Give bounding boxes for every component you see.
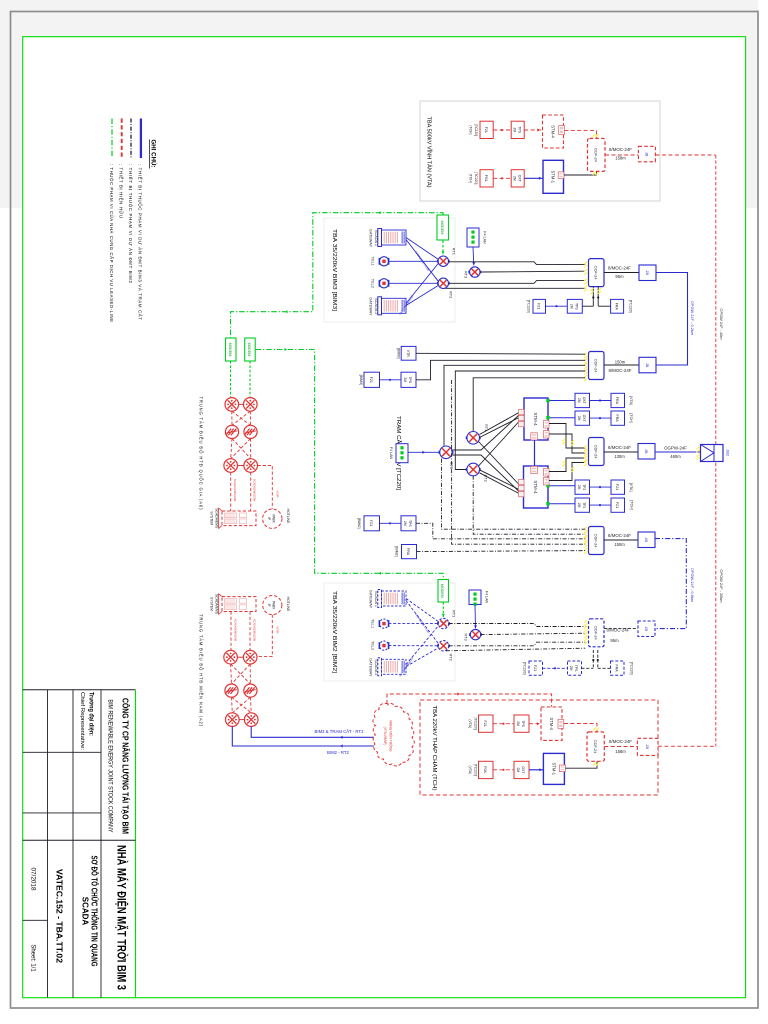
- svg-text:SCADA(EMS)G/W: SCADA(EMS)G/W: [252, 619, 256, 642]
- svg-text:TEL2: TEL2: [371, 279, 375, 288]
- svg-text:BIM RENEWABLE ENERGY JOINT STO: BIM RENEWABLE ENERGY JOINT STOCK COMPANY: [107, 700, 114, 833]
- box F2L (VTA): [480, 121, 493, 138]
- svg-text:(VTA): (VTA): [468, 765, 472, 774]
- svg-text:FRA: FRA: [615, 415, 619, 423]
- wire FRAb dashed to ODF4: [417, 551, 586, 552]
- wire RT3 BIM3 to ODF: [480, 270, 585, 273]
- box F21 (BIM3 feed): [364, 372, 380, 387]
- wire TPS2M BIM3feed to ODF2: [416, 360, 585, 380]
- wire STM4 TCH to ODF: [564, 724, 597, 732]
- svg-text:2M: 2M: [403, 377, 407, 382]
- svg-text:TEL1: TEL1: [371, 619, 375, 628]
- wire ODF VTA - JB VTA: [605, 154, 638, 156]
- label F4 LAN BIM2: [485, 591, 489, 604]
- svg-text:TPS: TPS: [408, 520, 412, 527]
- label 10/100BASE-T LAN upper: [414, 250, 430, 271]
- label VOIP A0: [275, 490, 279, 497]
- svg-text:TPS: TPS: [408, 376, 412, 383]
- wire ODF TCH - JB TCH: [604, 746, 637, 748]
- svg-text:STM-4: STM-4: [549, 717, 554, 730]
- label [BIM3] F21: [359, 375, 363, 385]
- svg-text:[VTA]: [VTA]: [629, 396, 633, 405]
- wire RT2-STM2 fan a: [480, 470, 520, 490]
- label BIM3 TRAM CAT - RT2: [315, 729, 365, 734]
- label SCADA/EMS SYSTEM A2: [209, 594, 218, 615]
- svg-text:: THIẾT BỊ HIỆN HỮU: : THIẾT BỊ HIỆN HỮU: [119, 164, 124, 218]
- box OXT-2M (VTA): [511, 170, 524, 187]
- svg-text:2M: 2M: [569, 666, 573, 671]
- box TF3-2M b: [575, 498, 590, 512]
- router RT2 (BIM3): [437, 278, 450, 288]
- title: drawing name: [81, 856, 100, 967]
- svg-text:RT1: RT1: [452, 248, 457, 255]
- label RT3 BIM2: [464, 633, 469, 640]
- legend text BIM2: [128, 164, 133, 284]
- telephone TEL2 (BIM3): [379, 279, 388, 288]
- svg-text:[TC220]: [TC220]: [474, 124, 478, 136]
- svg-text:2M: 2M: [577, 416, 581, 421]
- wire STM4 VTA to ODF: [564, 131, 596, 139]
- svg-text:GATEWAY: GATEWAY: [369, 590, 373, 609]
- label [TC220] chain1 right: [629, 300, 633, 313]
- station box TBA 500kV Vinh Tan (VTA): [420, 101, 660, 201]
- svg-text:F21: F21: [537, 303, 541, 309]
- wire JB3 to JB2 splice (OGPW): [655, 451, 701, 453]
- junction box JB4: [638, 532, 655, 548]
- svg-text:F21: F21: [615, 484, 619, 490]
- F4 LAN box (TC220): [396, 444, 408, 463]
- hotline PABX IP A2: [263, 596, 282, 615]
- splice ticks VTA ODF top: [593, 134, 599, 137]
- router RT1 (BIM2): [437, 618, 450, 628]
- svg-text:F4 LAN: F4 LAN: [483, 231, 487, 244]
- svg-text:Sheet: 1/1: Sheet: 1/1: [30, 944, 36, 972]
- label cable 8/MOC-24F 95m (BIM2): [607, 628, 630, 643]
- label [TC220] (TCH) VTA chain2: [469, 172, 479, 184]
- multiplexer STM-4 no.1 (TC220): [519, 398, 550, 440]
- svg-text:JB: JB: [645, 271, 650, 276]
- legend black dash-dot line sample: [130, 119, 132, 159]
- svg-text:95m: 95m: [610, 638, 619, 643]
- svg-text:VOIP: VOIP: [275, 490, 279, 497]
- wire STM1 card2 to ODF3: [549, 434, 585, 453]
- ODF-24 (VTA): [588, 138, 606, 171]
- svg-text:JB: JB: [644, 449, 649, 454]
- router RT2 (BIM2): [437, 641, 450, 651]
- wire RT1 BIM3 to ODF: [449, 262, 586, 265]
- svg-text:JB: JB: [644, 152, 649, 157]
- SCADA/EMS system A2: [219, 594, 257, 615]
- A0 gw wires down: [231, 472, 251, 511]
- wire modem 2 down to A0 router: [249, 361, 251, 397]
- wire F21-TPS2M: [546, 305, 568, 307]
- label OPGW 24F - 0.2km: [690, 301, 695, 335]
- svg-text:JB: JB: [644, 538, 649, 543]
- wire GW1-RT2 BIM3: [406, 240, 438, 282]
- wire VOIP A2: [258, 615, 273, 657]
- svg-text:SCADA/EMS: SCADA/EMS: [214, 508, 218, 529]
- splice ticks VTA ODF bottom: [593, 172, 599, 175]
- svg-text:[VTA]: [VTA]: [629, 483, 633, 492]
- svg-text:RT2: RT2: [449, 291, 454, 298]
- wire VTR to ODF2: [416, 352, 585, 355]
- label SCADA/EMS SYSTEM A0: [209, 508, 218, 529]
- svg-text:SƠ ĐỒ TỔ CHỨC THÔNG TIN QUANG: SƠ ĐỒ TỔ CHỨC THÔNG TIN QUANG: [90, 856, 100, 967]
- splice ticks ODF4 entries: [584, 527, 587, 554]
- junction box JB (TCH): [637, 738, 658, 755]
- label [BIM3] VTR: [397, 348, 401, 358]
- wire STM1-OXT2M b: [550, 417, 575, 419]
- router RT3 (BIM3): [468, 267, 481, 277]
- wire F21b-TPS2Mb: [380, 522, 402, 524]
- svg-text:8/MOC-24F: 8/MOC-24F: [609, 147, 632, 152]
- svg-text:(VTN-PANP): (VTN-PANP): [383, 727, 387, 746]
- gateway SCADA 2 (BIM2): [378, 658, 406, 676]
- svg-text:JB: JB: [645, 745, 650, 750]
- svg-text:GATEWAY: GATEWAY: [369, 297, 373, 316]
- svg-text:RT3: RT3: [464, 633, 469, 640]
- wire OXT2M-STM1 TCH: [529, 768, 543, 771]
- svg-text:F0/L: F0/L: [484, 175, 488, 182]
- wire TF32Mb-F21: [590, 504, 612, 506]
- svg-text:NHÀ MÁY ĐIỆN MẶT TRỜI BIM 3: NHÀ MÁY ĐIỆN MẶT TRỜI BIM 3: [115, 845, 130, 990]
- wire STM2 card1 to ODF3: [549, 458, 585, 472]
- telephone TEL2 (BIM2): [379, 641, 388, 650]
- label cable 8/MOC-24F 130m: [608, 445, 631, 459]
- wire junction to FRA BIM2: [598, 667, 611, 669]
- multiplexer STM-4 no.2 (TC220): [519, 466, 550, 508]
- wire riser RT3 up to ODF2: [444, 365, 585, 446]
- wire F0L-OXT2M VTA: [493, 177, 511, 179]
- svg-text:TPS: TPS: [574, 303, 578, 310]
- svg-text:SCADA 2: SCADA 2: [374, 298, 378, 314]
- multiplexer STM-1 (VTA, new): [543, 160, 564, 193]
- svg-text:[BIM3]: [BIM3]: [359, 375, 363, 385]
- label OPGW-24F - 0.8km: [690, 568, 695, 602]
- svg-text:MODEM: MODEM: [440, 584, 444, 598]
- label cable 8/MOC-24F 150m south: [608, 533, 631, 547]
- wire OXT2Ma-FRA: [590, 399, 612, 401]
- svg-text:TRUNG TÂM ĐIỀU ĐỘ HTĐ QUỐC GIA: TRUNG TÂM ĐIỀU ĐỘ HTĐ QUỐC GIA (A0): [199, 397, 204, 511]
- box OXT-2M a: [575, 393, 590, 407]
- svg-text:2M: 2M: [512, 176, 516, 181]
- svg-text:MODEM: MODEM: [228, 343, 232, 357]
- svg-text:FRA: FRA: [615, 397, 619, 405]
- F4 LAN box (BIM2): [469, 590, 481, 606]
- title: representative: [79, 692, 95, 750]
- wire ODF2-JB2a: [604, 364, 639, 366]
- router RT3 (BIM2): [469, 629, 482, 639]
- wire OPGW trunk red dashed vertical: [715, 155, 717, 746]
- box F21 (BIM2 feed): [364, 516, 380, 531]
- svg-text:BIM3 & TRẠM CẮT - RT2: BIM3 & TRẠM CẮT - RT2: [315, 729, 365, 734]
- ODF-24 (BIM3 95m): [589, 259, 605, 287]
- svg-text:OXT: OXT: [582, 397, 586, 404]
- svg-text:F2L: F2L: [484, 127, 488, 133]
- label RT3 TC220: [449, 462, 454, 469]
- wire TF32Ma-F21: [590, 486, 612, 488]
- A0 wires row2-row3: [231, 439, 251, 459]
- svg-text:8/MOC-24F: 8/MOC-24F: [608, 266, 631, 271]
- wire RT3-STM1 fan: [452, 415, 519, 450]
- wire STM2-TF32M a: [550, 485, 575, 487]
- label [TC220] (VTA) TCH chain1: [468, 718, 478, 730]
- ODF-24 (TCH): [587, 732, 604, 761]
- telephone TEL1 (BIM3): [379, 257, 388, 266]
- wire A2 to cloud line2 (BIM2 - RT2): [232, 726, 377, 747]
- svg-text:SCADA 1: SCADA 1: [374, 591, 378, 607]
- label HOTLINE A0: [286, 509, 290, 524]
- junction box JB3: [638, 444, 655, 460]
- svg-text:: THIẾT BỊ THUỘC PHẠM VI DỰ ÁN: : THIẾT BỊ THUỘC PHẠM VI DỰ ÁN ĐMT BIM2: [128, 164, 133, 284]
- label RT1 BIM2: [452, 610, 457, 617]
- svg-text:[BIM2]: [BIM2]: [357, 518, 361, 528]
- box TPS-2M (TCH): [514, 715, 529, 732]
- box FRA [TCH] b: [611, 411, 625, 425]
- svg-text:F21: F21: [615, 502, 619, 508]
- label HOTLINE A2: [286, 597, 290, 612]
- junction box JB (VTA): [638, 146, 655, 162]
- wire modem A to router RT1 BIM3: [441, 241, 444, 255]
- ODF-24 (TC220 150m): [589, 352, 605, 380]
- legend text BIM3: [138, 164, 143, 320]
- svg-text:Trưởng đại diện:: Trưởng đại diện:: [88, 692, 95, 736]
- svg-text:2M: 2M: [516, 721, 520, 726]
- station label BIM2: [331, 591, 337, 674]
- svg-text:OPGW-24F - 0.8km: OPGW-24F - 0.8km: [690, 568, 695, 602]
- label RT1 BIM3: [452, 248, 457, 255]
- wire F21-TPS2M BIM2: [543, 667, 568, 669]
- wire STM2-TF32M b: [550, 503, 575, 505]
- svg-text:2M: 2M: [577, 398, 581, 403]
- label [TCH] b: [629, 413, 633, 422]
- svg-text:(TCH): (TCH): [469, 125, 473, 134]
- title: sheet: [30, 944, 36, 972]
- svg-text:OXT: OXT: [582, 415, 586, 422]
- wire OXT2M-STM1 VTA: [524, 177, 543, 180]
- wire RT2 BIM3 to ODF: [449, 281, 586, 284]
- A2 wires row1-row2: [231, 664, 251, 684]
- svg-text:07/2018: 07/2018: [30, 867, 37, 891]
- box TF3-2M a: [575, 480, 590, 494]
- label [TCH] c: [630, 500, 634, 509]
- label cable 8/MOC-24F 95m (BIM3): [608, 266, 631, 279]
- splice ticks JB2: [696, 447, 699, 460]
- wire STM1 card1 to ODF3: [549, 424, 585, 449]
- svg-text:SCADA 2: SCADA 2: [374, 659, 378, 675]
- modem B (BIM2): [438, 580, 449, 603]
- svg-text:[TC220]: [TC220]: [474, 718, 478, 730]
- wire TEL1-RT1 BIM2: [389, 623, 439, 625]
- wire F2L-TPS2M VTA: [493, 129, 511, 131]
- wire RT2-STM1 fan: [479, 422, 520, 467]
- junction box JB2a: [639, 357, 656, 373]
- A2 router pair row3: [226, 713, 259, 727]
- box F21 [VTA]: [611, 480, 625, 494]
- svg-text:F0/L: F0/L: [483, 766, 487, 773]
- gateway SCADA 1 (BIM3): [378, 229, 406, 247]
- box OXT-2M (TCH): [514, 761, 529, 778]
- wire STM1-STM2 link: [534, 440, 536, 466]
- box VTR (TC220): [401, 346, 416, 360]
- station label TC220: [395, 416, 403, 491]
- label RT2 BIM2: [449, 654, 454, 661]
- label [TC220] chain5 right: [630, 662, 634, 675]
- wire GW2-RT2 BIM2: [406, 648, 438, 667]
- svg-text:[TC220]: [TC220]: [474, 764, 478, 776]
- title: company name EN: [107, 700, 114, 833]
- wire F4LAN to RT3 BIM2: [474, 605, 477, 629]
- multiplexer STM-1 (TCH, new): [543, 753, 565, 784]
- svg-text:MODEM: MODEM: [440, 221, 444, 235]
- wire RT2b BIM2 to ODF5: [446, 648, 585, 651]
- label TEL1 BIM2: [371, 619, 375, 628]
- svg-text:: THIẾT BỊ THUỘC PHẠM VI DỰ ÁN: : THIẾT BỊ THUỘC PHẠM VI DỰ ÁN ĐMT BIM3 …: [138, 164, 143, 320]
- wire ODF1-JB1: [604, 272, 639, 274]
- label RT3 BIM3: [464, 271, 469, 278]
- svg-text:ODF-24: ODF-24: [594, 148, 599, 163]
- svg-text:2M: 2M: [569, 304, 573, 309]
- wire RT1-STM1 fan a: [480, 413, 520, 435]
- legend text existing: [119, 164, 124, 218]
- wire GW1-RT1 BIM2: [406, 599, 438, 622]
- wire JB TCH to OPGW trunk: [658, 745, 716, 747]
- svg-text:SCADA(EMS)G/W: SCADA(EMS)G/W: [233, 619, 237, 642]
- splice ticks ODF1 entries: [584, 262, 587, 292]
- svg-text:F21: F21: [369, 377, 373, 383]
- A2 switch pair row2: [225, 684, 257, 697]
- wire ODF4-JB4: [604, 539, 638, 541]
- modem 2 (A0): [245, 338, 256, 361]
- svg-text:SYSTEM: SYSTEM: [209, 597, 213, 611]
- wire F0L-OXT2M TCH: [493, 769, 514, 771]
- splice ticks ODF2 entries: [584, 353, 587, 381]
- box TPS-2M (TC220 chain top): [567, 299, 582, 313]
- title: company name: [121, 698, 132, 834]
- label F4 LAN BIM3: [483, 231, 487, 244]
- wire TPS2M-STM4 TCH: [529, 722, 541, 725]
- box TPS-2M (VTA): [511, 121, 524, 138]
- wire TEL2-RT2 BIM3: [389, 282, 439, 284]
- label F4 LAN TC220: [389, 447, 393, 460]
- box F21 (BIM2 chain): [529, 661, 543, 675]
- router RT1 (TC220): [466, 432, 481, 445]
- box FRA (TC220 chain top): [611, 299, 624, 313]
- svg-text:HOTLINE: HOTLINE: [286, 597, 290, 612]
- label [VTA] c: [629, 483, 633, 492]
- label [TC220] chain1 left: [527, 300, 531, 313]
- svg-text:(TCH): (TCH): [469, 174, 473, 183]
- label OPGW 24F - 40m: [719, 308, 724, 339]
- wire dashed riser x451 to ODF4: [452, 380, 586, 544]
- wire cloud riser to TCH: [387, 692, 552, 706]
- svg-text:SCADA: SCADA: [81, 897, 90, 926]
- label cable 150m 8/MOC-24F: [609, 359, 632, 373]
- modem 1 (A0): [226, 338, 237, 361]
- telecom cloud MANG VIEN THONG: [373, 703, 414, 766]
- label OGPW-24F 460m: [664, 445, 687, 459]
- SCADA/EMS system A0: [219, 508, 257, 529]
- wire ODF5 tails down: [592, 650, 599, 668]
- station box A2: [0, 0, 1, 1]
- label gateway scada 2 BIM3: [369, 297, 378, 316]
- label cable 8/MOC-24F 158m VTA: [609, 147, 632, 160]
- label [BIM2] FRAb: [395, 546, 399, 556]
- wire VOIP A0: [258, 466, 273, 509]
- svg-text:8/MOC-24F: 8/MOC-24F: [607, 628, 630, 633]
- legend text leased line: [109, 164, 114, 322]
- svg-text:150m: 150m: [615, 359, 626, 364]
- wire GW2-RT2 BIM3: [406, 286, 438, 306]
- legend heading GHI CHU: [149, 140, 156, 169]
- svg-text:STM-4: STM-4: [533, 412, 538, 426]
- svg-text:TBA 500kV VĨNH TÂN (VTA): TBA 500kV VĨNH TÂN (VTA): [426, 117, 433, 188]
- splice ticks ODF5 entries: [584, 620, 587, 644]
- wire RT2-STM2 fan b: [480, 473, 520, 494]
- splice closure JB2 on OPGW line: [701, 445, 724, 462]
- svg-text:TEL1: TEL1: [371, 257, 375, 266]
- wire ODF5-JB5 dashed: [604, 628, 638, 630]
- svg-text:TPS: TPS: [517, 126, 521, 133]
- splice ticks TCH ODF top: [593, 727, 599, 730]
- station label A2: [199, 614, 204, 727]
- label TEL2 BIM3: [371, 279, 375, 288]
- wire RT1 BIM2 to ODF5: [449, 624, 586, 627]
- svg-text:GATEWAY: GATEWAY: [369, 658, 373, 677]
- wire STM1 VTA to ODF: [564, 171, 597, 175]
- label gateway scada 1 BIM3: [369, 229, 378, 248]
- svg-text:[TC220]: [TC220]: [630, 662, 634, 675]
- wire GW1-RT2 BIM2: [406, 601, 438, 644]
- wire modem 1 down to A0 router: [230, 361, 232, 397]
- gateway SCADA 1 (BIM2): [378, 590, 406, 608]
- legend blue solid line sample: [140, 119, 142, 159]
- svg-text:F21: F21: [533, 665, 537, 671]
- svg-text:TEL2: TEL2: [371, 641, 375, 650]
- svg-text:OPGW 24F - 0.2km: OPGW 24F - 0.2km: [690, 301, 695, 335]
- hotline PABX IP A0: [263, 509, 282, 528]
- wire RT2 down dashed to ODF4: [473, 476, 585, 534]
- svg-text:130m: 130m: [614, 454, 625, 459]
- wire F4LAN to RT3 BIM3: [472, 247, 475, 266]
- wire RT3 down dashed to ODF4: [442, 459, 586, 530]
- svg-text:IP: IP: [267, 604, 271, 607]
- svg-text:IP: IP: [267, 517, 271, 520]
- label [TC220] (VTA) TCH chain2: [468, 764, 478, 776]
- svg-text:TBA 35/220kV BIM3 [BIM3]: TBA 35/220kV BIM3 [BIM3]: [331, 229, 337, 312]
- svg-text:[BIM3]: [BIM3]: [397, 348, 401, 358]
- svg-text:2M: 2M: [512, 127, 516, 132]
- svg-text:FRA: FRA: [615, 665, 619, 673]
- wire GW1-RT1 BIM3: [406, 238, 438, 260]
- A2 router pair row1: [224, 650, 257, 664]
- station label A0: [199, 397, 204, 511]
- label OPGW 24F - 20km: [719, 569, 724, 602]
- svg-text:OGPW-24F: OGPW-24F: [664, 445, 687, 450]
- wire ODF1 tails down: [592, 287, 599, 307]
- legend red dashed line sample: [121, 119, 123, 159]
- router RT3 (TC220): [439, 446, 454, 459]
- label scada ems gw A2: [233, 619, 256, 642]
- svg-text:F4 LAN: F4 LAN: [389, 447, 393, 460]
- box F21 (TC220 chain top): [533, 299, 546, 313]
- title: drawing number: [55, 869, 64, 964]
- svg-text:ODF-24: ODF-24: [594, 266, 599, 281]
- svg-text:STM-1: STM-1: [551, 171, 556, 184]
- svg-text:F4 LAN: F4 LAN: [485, 591, 489, 604]
- svg-text:ODF-24: ODF-24: [594, 359, 599, 374]
- svg-text:F21: F21: [369, 520, 373, 526]
